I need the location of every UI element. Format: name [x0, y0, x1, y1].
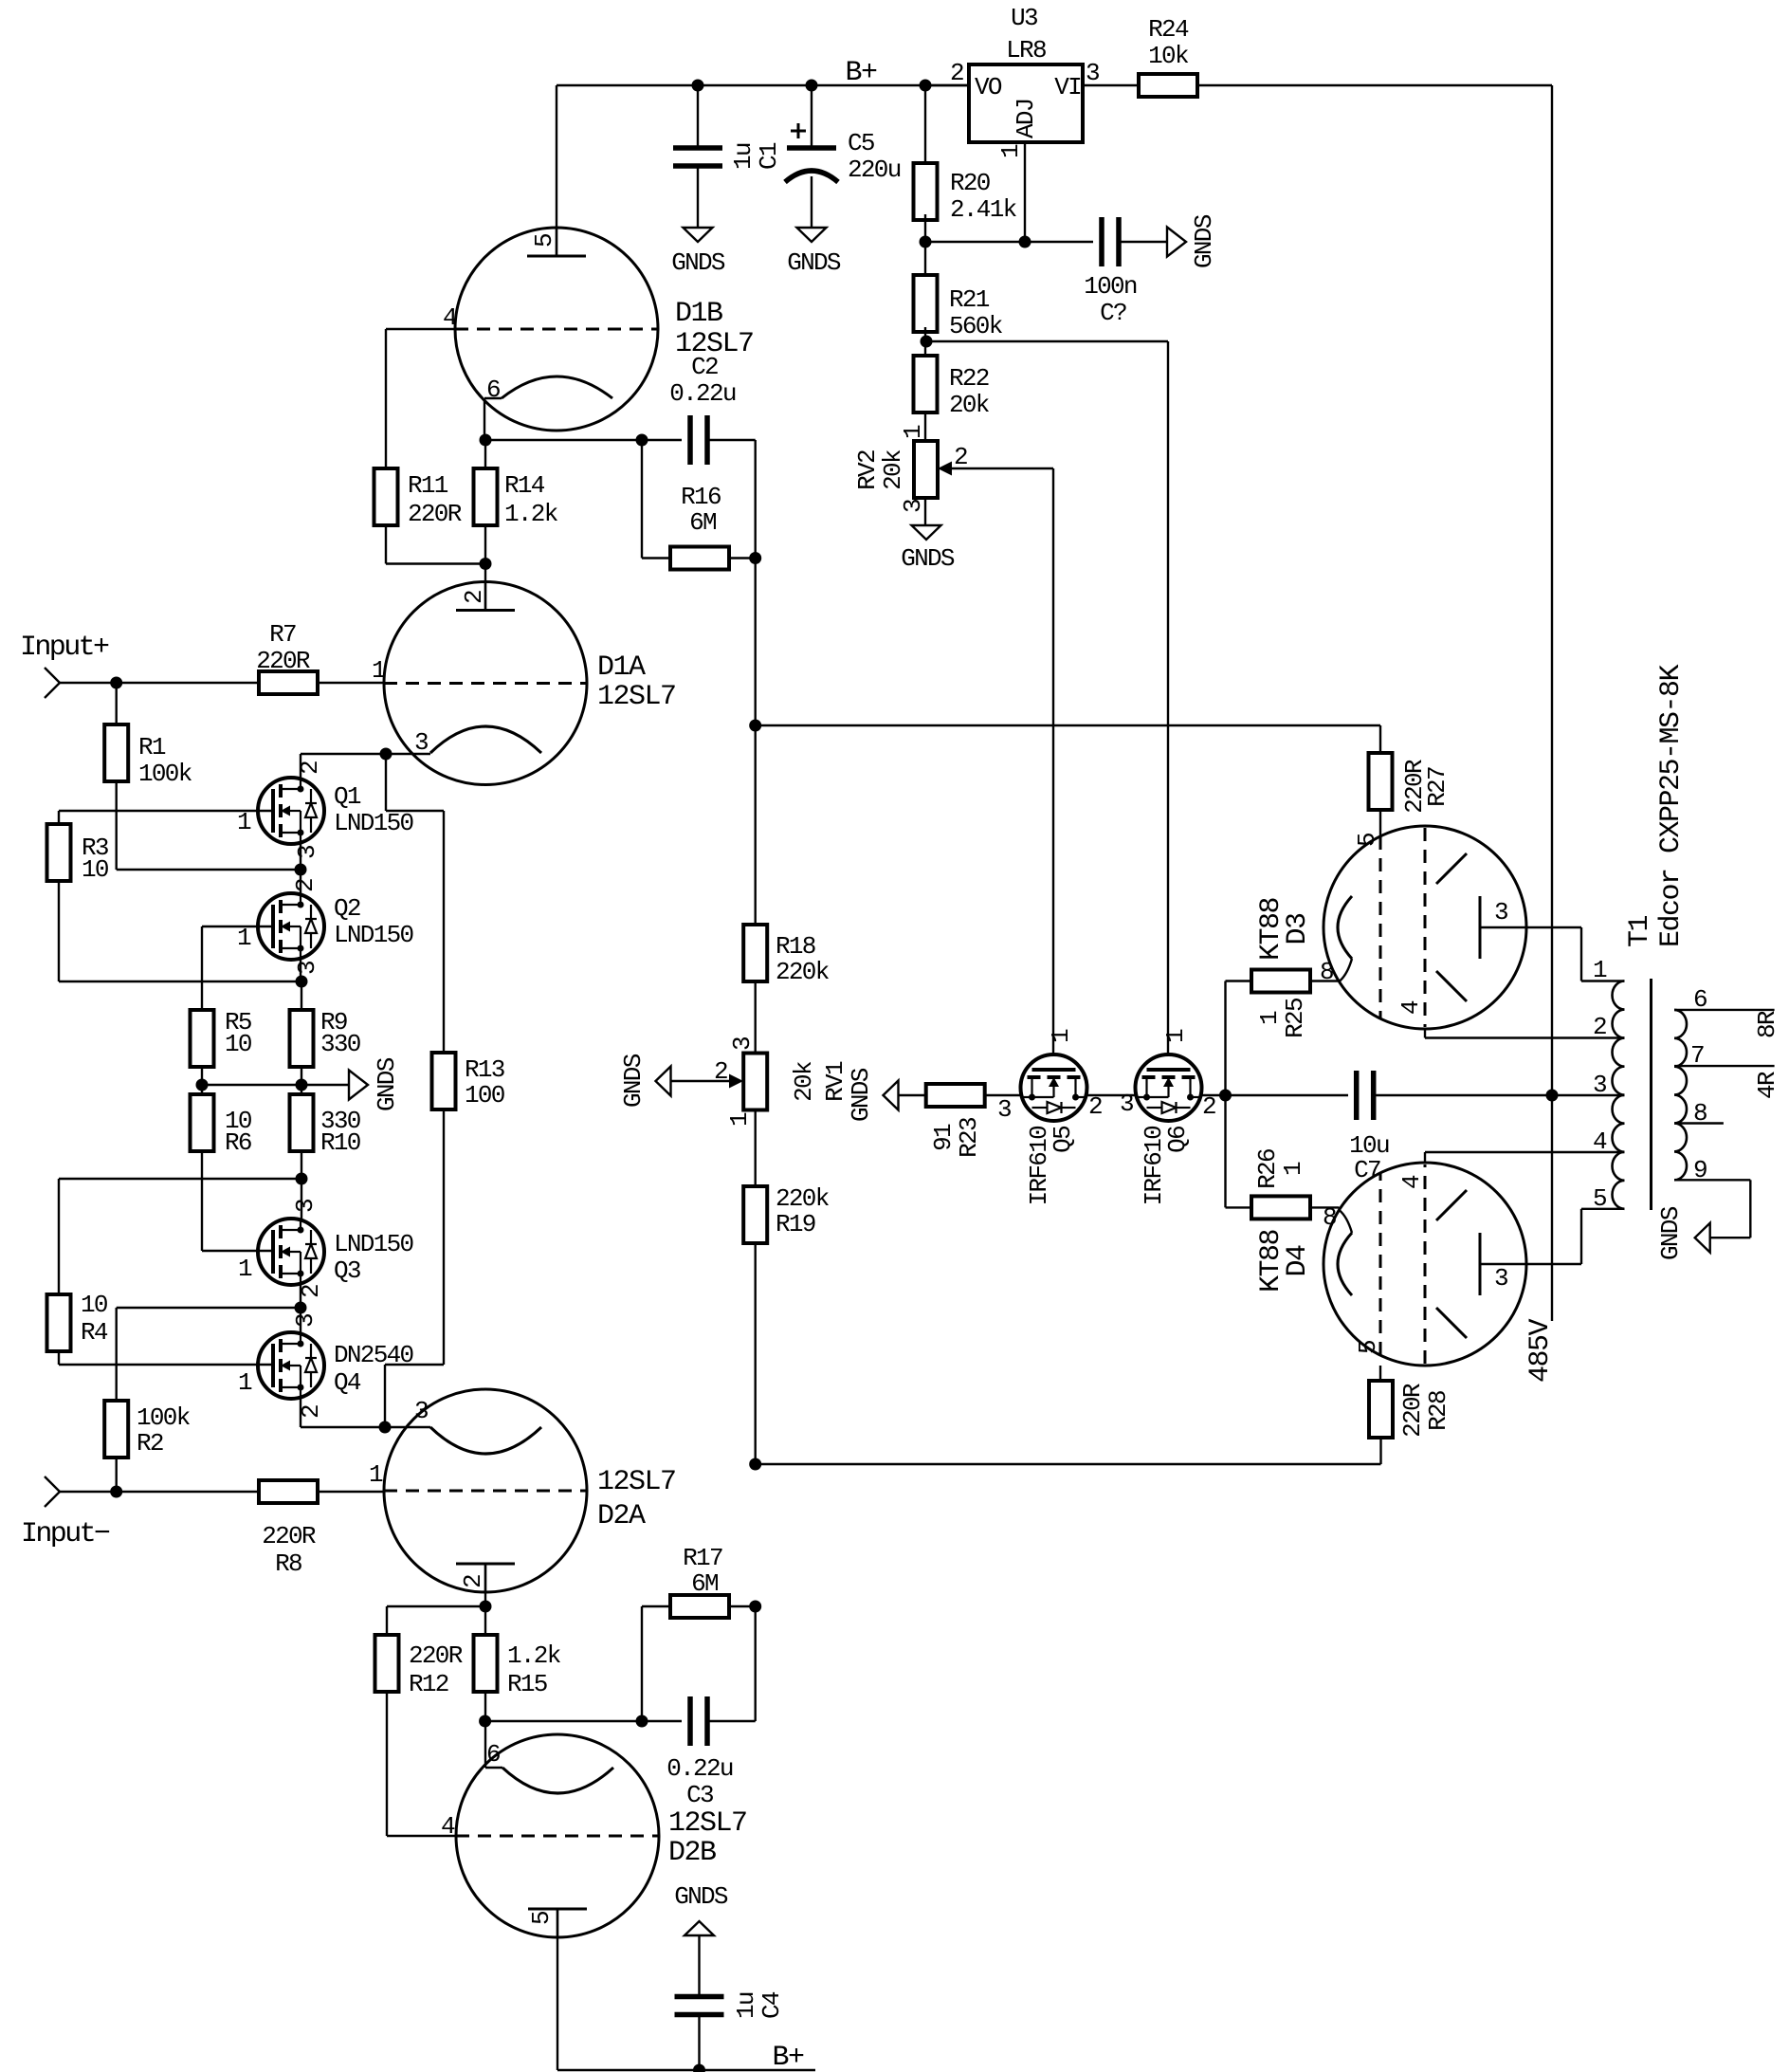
node R21/R22 junction: [921, 336, 933, 348]
wire Q2 source to R9: [301, 981, 302, 1010]
ground GNDS above C4: [685, 1921, 714, 1935]
wire D2B plate pin 5 to B+ rail: [557, 1908, 558, 2070]
node R9/R10 junction: [296, 1079, 308, 1091]
wire Q2 drain: [300, 870, 301, 893]
svg-text:D3: D3: [1282, 913, 1314, 945]
resistor R25: [1251, 970, 1310, 993]
wire D2B pin 6: [484, 1721, 486, 1768]
wire 485V rail: [1551, 85, 1553, 1321]
svg-text:Input+: Input+: [20, 632, 109, 664]
svg-text:LND150: LND150: [334, 1230, 413, 1258]
svg-text:Q3: Q3: [334, 1256, 360, 1285]
wire R13 bottom to D2A node: [443, 1109, 445, 1365]
wire R26 to D4 pin 8: [1310, 1206, 1340, 1208]
svg-text:4: 4: [1397, 1000, 1425, 1015]
capacitor C3: [687, 1696, 693, 1746]
wire to C? cap: [1025, 241, 1093, 243]
svg-text:D1B: D1B: [675, 298, 722, 330]
wire C7 right to center tap: [1374, 1094, 1625, 1096]
svg-text:Q6: Q6: [1163, 1127, 1192, 1153]
svg-text:R21: R21: [949, 285, 990, 314]
svg-text:3: 3: [414, 1397, 428, 1425]
svg-text:10: 10: [82, 855, 108, 884]
svg-text:1: 1: [1279, 1162, 1307, 1176]
resistor R6: [191, 1094, 214, 1151]
svg-text:Q1: Q1: [334, 782, 361, 811]
svg-text:1u: 1u: [729, 143, 758, 170]
svg-text:R4: R4: [81, 1318, 108, 1347]
wire Input+ row: [60, 682, 259, 684]
capacitor C2: [687, 415, 693, 465]
wire junction to C3: [485, 1720, 682, 1722]
svg-text:R26: R26: [1253, 1149, 1282, 1189]
svg-text:C5: C5: [848, 129, 874, 157]
ground GNDS under C5: [797, 228, 827, 242]
port Input+ chevron: [45, 668, 60, 698]
capacitor C? 100n: [1099, 217, 1104, 266]
svg-text:220R: 220R: [1398, 1384, 1427, 1438]
svg-text:GNDS: GNDS: [674, 1882, 728, 1911]
svg-text:Input−: Input−: [21, 1518, 110, 1550]
resistor R7: [259, 671, 318, 694]
svg-text:Q5: Q5: [1049, 1127, 1077, 1153]
wire ground row: [202, 1084, 349, 1086]
wire R14 pins: [484, 440, 486, 468]
svg-text:12SL7: 12SL7: [597, 681, 676, 713]
T1 pin 6 wire: [1674, 1009, 1775, 1011]
svg-text:100k: 100k: [137, 1403, 191, 1432]
potentiometer RV1 body: [743, 1054, 767, 1110]
svg-text:2: 2: [1593, 1013, 1606, 1041]
svg-text:R7: R7: [269, 620, 296, 649]
node center column junction: [749, 720, 761, 732]
T1 pin 9 wire: [1674, 1179, 1750, 1181]
wire R18 to RV1: [755, 981, 757, 1054]
svg-text:20k: 20k: [949, 391, 990, 419]
node ADJ junction: [1019, 236, 1031, 248]
svg-text:1.2k: 1.2k: [504, 500, 558, 528]
node Q4/D2A cathode junction: [379, 1421, 392, 1434]
node Input-/R2 junction: [110, 1486, 122, 1498]
wire D2A plate pin 2: [484, 1563, 486, 1606]
svg-text:C1: C1: [755, 142, 783, 170]
wire junction to R2: [117, 1307, 301, 1309]
wire RV1 to R19: [755, 1110, 757, 1186]
resistor R21: [924, 214, 926, 275]
node C3 left junction: [636, 1715, 648, 1728]
svg-text:8R: 8R: [1753, 1011, 1781, 1038]
svg-text:B+: B+: [845, 57, 877, 89]
node R15/D2B junction: [479, 1715, 491, 1728]
wire B+ top rail: [557, 84, 969, 86]
svg-text:9: 9: [1693, 1156, 1707, 1184]
wire R2 bottom: [115, 1458, 117, 1492]
wire D4 plate to T1 pin 5: [1526, 1263, 1581, 1265]
svg-text:2: 2: [1088, 1092, 1102, 1121]
svg-text:10k: 10k: [1148, 42, 1189, 70]
svg-text:GNDS: GNDS: [1190, 214, 1218, 268]
resistor R16: [670, 547, 729, 570]
wire to D2A cathode: [385, 1426, 430, 1428]
potentiometer RV2 body: [914, 441, 938, 498]
wire C? to ground: [1119, 241, 1167, 243]
wire Input- row: [60, 1491, 259, 1493]
svg-text:2.41k: 2.41k: [950, 195, 1017, 224]
svg-text:R23: R23: [955, 1118, 983, 1158]
wire cathode row to C2: [485, 439, 682, 441]
svg-text:12SL7: 12SL7: [668, 1807, 747, 1840]
capacitor C1: [673, 145, 722, 151]
svg-text:0.22u: 0.22u: [669, 379, 736, 408]
node C4/B+ junction: [693, 2064, 705, 2072]
svg-text:ADJ: ADJ: [1012, 99, 1040, 138]
wire R9 bottom: [301, 1067, 302, 1094]
svg-text:GNDS: GNDS: [671, 248, 725, 277]
svg-text:330: 330: [320, 1030, 360, 1058]
wire D1A cathode row: [386, 753, 430, 755]
svg-text:R16: R16: [681, 483, 721, 511]
svg-text:0.22u: 0.22u: [666, 1754, 733, 1783]
svg-text:3: 3: [291, 1314, 319, 1328]
svg-text:R15: R15: [507, 1670, 547, 1698]
resistor R15: [484, 1606, 486, 1635]
svg-text:8: 8: [1693, 1099, 1707, 1128]
wire RV2 to ground: [924, 498, 926, 525]
svg-text:Q4: Q4: [334, 1368, 361, 1397]
svg-text:2: 2: [291, 879, 319, 892]
resistor R12: [375, 1635, 399, 1692]
wire C4 bottom: [698, 2015, 700, 2070]
node Q6/R25/R26/C7 junction: [1219, 1090, 1232, 1102]
wire Q2 gate: [202, 926, 273, 927]
resistor R17: [670, 1595, 729, 1618]
svg-text:1: 1: [372, 656, 386, 685]
D1B pin 4 wire: [386, 328, 455, 330]
svg-text:2: 2: [460, 591, 488, 604]
wire C5 top: [811, 85, 812, 148]
wire Q4 source: [300, 1399, 301, 1427]
svg-text:20k: 20k: [790, 1061, 818, 1102]
wire D4 screen to T1 pin 4: [1424, 1152, 1426, 1163]
svg-text:GNDS: GNDS: [373, 1057, 401, 1111]
T1 pin 8 wire: [1674, 1122, 1724, 1124]
ground GNDS under RV2: [912, 525, 941, 540]
transformer T1 core: [1650, 979, 1652, 1210]
svg-text:10: 10: [225, 1030, 251, 1058]
svg-text:6: 6: [486, 376, 500, 404]
U3 pin 2 wire: [925, 84, 969, 86]
svg-text:2: 2: [950, 59, 963, 87]
capacitor C5 (polarized): [787, 145, 836, 151]
wire B+ to D1B plate: [556, 85, 557, 256]
transformer T1 primary winding: [1612, 981, 1624, 1209]
svg-text:4: 4: [441, 1812, 455, 1841]
resistor R4: [47, 1294, 71, 1351]
transistor Q2 LND150: [258, 893, 324, 960]
wire C4 top to ground: [698, 1935, 700, 1996]
svg-text:2: 2: [1202, 1092, 1215, 1121]
resistor R1: [115, 683, 117, 724]
svg-text:220R: 220R: [408, 500, 462, 528]
capacitor C4: [675, 1994, 724, 2000]
node Input+/R1 junction: [110, 677, 122, 689]
node bottom rail junction: [749, 1458, 761, 1471]
D1B pin 6 wire: [484, 398, 485, 440]
resistor R9: [290, 1010, 314, 1067]
svg-text:2: 2: [459, 1575, 487, 1588]
svg-text:R24: R24: [1148, 15, 1189, 44]
resistor R3: [47, 824, 71, 881]
label C5 plus sign: [791, 130, 806, 133]
wire R4 bottom to Q4 gate: [58, 1351, 60, 1365]
wire grid bus to D3 (R27): [756, 724, 1380, 726]
wire C3 right: [707, 1720, 756, 1722]
svg-text:5: 5: [1593, 1184, 1606, 1213]
wire junction to R4: [59, 1178, 301, 1180]
svg-text:1: 1: [237, 924, 251, 952]
svg-text:20k: 20k: [879, 449, 907, 490]
svg-text:D2B: D2B: [668, 1837, 716, 1869]
svg-text:3: 3: [1593, 1071, 1606, 1099]
svg-text:R11: R11: [408, 471, 448, 500]
svg-text:7: 7: [1690, 1041, 1704, 1070]
svg-text:4: 4: [443, 303, 457, 332]
svg-text:C3: C3: [686, 1781, 713, 1809]
resistor R19: [743, 1186, 767, 1243]
svg-text:3: 3: [899, 500, 927, 513]
transformer T1 secondary winding: [1674, 1010, 1687, 1180]
svg-text:1: 1: [1255, 1011, 1284, 1025]
transistor Q4 DN2540: [258, 1332, 324, 1399]
resistor R11: [374, 468, 398, 525]
svg-text:1: 1: [238, 1255, 252, 1283]
svg-text:T1: T1: [1624, 915, 1656, 947]
svg-text:3: 3: [728, 1037, 757, 1051]
svg-text:RV1: RV1: [821, 1061, 849, 1102]
svg-text:C2: C2: [691, 353, 718, 381]
svg-text:1: 1: [1593, 956, 1607, 984]
wire R16 right: [729, 557, 756, 559]
svg-text:1: 1: [237, 808, 251, 836]
resistor R26: [1251, 1196, 1310, 1219]
svg-text:D2A: D2A: [597, 1500, 646, 1532]
resistor R14: [474, 468, 498, 525]
wire Q1 source: [300, 844, 301, 870]
resistor R10: [290, 1094, 314, 1151]
svg-text:3: 3: [291, 1200, 319, 1213]
svg-text:12SL7: 12SL7: [597, 1466, 676, 1498]
svg-text:3: 3: [1120, 1090, 1133, 1118]
node D1B cathode junction: [480, 434, 492, 447]
resistor R24: [1139, 74, 1197, 97]
node D1A cathode junction: [380, 748, 392, 761]
wire R28 to D4 grid: [1379, 1366, 1381, 1381]
svg-text:Q2: Q2: [334, 894, 360, 923]
svg-text:100n: 100n: [1084, 272, 1137, 301]
ground GNDS right of C?: [1167, 228, 1186, 257]
svg-text:8: 8: [1320, 958, 1333, 986]
svg-text:3: 3: [1494, 898, 1507, 926]
svg-text:3: 3: [997, 1095, 1011, 1124]
svg-text:1u: 1u: [732, 1992, 760, 2019]
svg-text:VI: VI: [1054, 73, 1081, 101]
regulator U3 LR8 box: [969, 64, 1083, 142]
wire plate junction to R12: [387, 1605, 485, 1607]
svg-text:R25: R25: [1281, 999, 1309, 1038]
svg-text:3: 3: [1494, 1264, 1507, 1293]
wire R19 bottom to rail: [755, 1243, 757, 1464]
wire center column to R18: [755, 725, 757, 925]
svg-text:R8: R8: [275, 1549, 301, 1578]
transistor Q5 IRF610: [1021, 1054, 1087, 1121]
transistor Q1 LND150: [258, 778, 324, 844]
svg-text:B+: B+: [772, 2042, 804, 2072]
wire C5 bottom: [811, 176, 812, 228]
svg-text:5: 5: [1353, 834, 1381, 847]
svg-text:DN2540: DN2540: [334, 1341, 413, 1369]
wire junction to Q6 gate: [926, 340, 1168, 342]
resistor R13: [432, 1053, 456, 1109]
svg-text:GNDS: GNDS: [1656, 1206, 1685, 1260]
svg-text:10: 10: [81, 1291, 107, 1319]
wire Q6 to C7 node: [1202, 1094, 1349, 1096]
svg-text:R18: R18: [776, 932, 815, 961]
node C1 top junction: [692, 80, 704, 92]
port Input- chevron: [45, 1476, 60, 1507]
ground GNDS under C1: [684, 228, 713, 242]
resistor R23: [926, 1084, 985, 1107]
node Q2 source junction: [296, 976, 308, 988]
ground GNDS left of R23: [884, 1081, 899, 1110]
svg-text:1: 1: [1161, 1029, 1190, 1043]
svg-text:R28: R28: [1424, 1391, 1452, 1431]
svg-text:91: 91: [929, 1124, 958, 1151]
node R16/C2 right junction: [749, 552, 761, 564]
svg-text:R13: R13: [465, 1055, 504, 1084]
RV2 wiper arrow: [938, 462, 952, 476]
svg-text:1: 1: [899, 425, 927, 439]
svg-text:RV2: RV2: [853, 450, 882, 490]
tube D2A 12SL7 (triode, flipped): [384, 1389, 587, 1592]
U3 pin 1 wire (ADJ): [1024, 142, 1026, 242]
svg-text:5: 5: [1354, 1341, 1382, 1354]
wire Q2 source: [300, 960, 301, 981]
wire R10 bottom: [301, 1151, 302, 1219]
capacitor C7: [1354, 1071, 1360, 1120]
svg-text:2: 2: [714, 1057, 727, 1086]
wire R6 bottom to Q3 gate: [201, 1151, 203, 1251]
svg-text:VO: VO: [975, 73, 1002, 101]
tube D4 KT88: [1323, 1163, 1526, 1366]
svg-text:6M: 6M: [689, 508, 716, 537]
svg-text:R12: R12: [409, 1670, 448, 1698]
svg-text:1: 1: [369, 1460, 383, 1489]
wire R11 bottom: [385, 525, 387, 564]
wire C1 top: [697, 85, 699, 148]
svg-text:LND150: LND150: [334, 809, 413, 837]
svg-text:220R: 220R: [262, 1522, 316, 1550]
svg-text:4: 4: [1397, 1175, 1426, 1189]
resistor R2: [104, 1401, 128, 1458]
node R5/R6 junction: [196, 1079, 209, 1091]
svg-text:100k: 100k: [138, 760, 192, 788]
svg-text:GNDS: GNDS: [619, 1054, 648, 1108]
wire R16 left leg: [641, 440, 643, 559]
node ADJ junction left: [920, 236, 932, 248]
wire bottom rail to R28: [756, 1463, 1381, 1465]
svg-text:R2: R2: [137, 1429, 163, 1458]
wire center column down: [755, 559, 757, 726]
svg-text:220R: 220R: [256, 647, 310, 675]
wire R15 bottom: [484, 1692, 486, 1721]
svg-text:D4: D4: [1282, 1245, 1314, 1277]
wire R5 bottom: [201, 1067, 203, 1094]
svg-text:2: 2: [954, 443, 967, 471]
svg-text:6: 6: [1693, 985, 1707, 1014]
svg-text:R17: R17: [683, 1544, 722, 1572]
wire cathode to Q1 drain: [301, 753, 386, 755]
wire RV2 wiper to Q5 gate: [1052, 468, 1054, 1054]
wire C2 right: [707, 439, 756, 441]
wire R17 left leg: [641, 1606, 643, 1721]
node C7/485V/T1 junction: [1546, 1090, 1559, 1102]
svg-text:C?: C?: [1100, 299, 1126, 327]
wire C1 bottom: [697, 166, 699, 228]
wire Q4 drain: [300, 1308, 301, 1332]
svg-text:220R: 220R: [409, 1641, 463, 1670]
resistor R28: [1369, 1381, 1393, 1438]
tube D1A 12SL7 (triode): [384, 582, 587, 785]
svg-text:5: 5: [527, 1912, 556, 1925]
svg-text:8: 8: [1323, 1203, 1336, 1232]
resistor R27: [1369, 753, 1393, 810]
node B+/U3/R20 junction: [920, 80, 932, 92]
svg-text:3: 3: [293, 846, 321, 859]
transistor Q3 LND150: [258, 1219, 324, 1285]
node Q3/Q4 junction: [295, 1302, 307, 1314]
svg-text:1: 1: [996, 144, 1025, 158]
svg-text:C4: C4: [758, 1991, 786, 2019]
svg-text:R1: R1: [138, 733, 166, 761]
ground GNDS right arrow: [349, 1071, 368, 1100]
wire D1A pin 2: [484, 564, 486, 611]
wire D3 screen to T1 pin 2: [1424, 1029, 1426, 1038]
node R17/C3 right junction: [749, 1601, 761, 1613]
svg-text:4: 4: [1593, 1128, 1607, 1156]
svg-text:LR8: LR8: [1006, 36, 1046, 64]
tube D3 KT88: [1323, 826, 1526, 1029]
node D2A plate junction: [480, 1601, 492, 1613]
resistor R22: [924, 327, 926, 356]
svg-text:3: 3: [293, 962, 321, 975]
resistor R20: [924, 85, 926, 163]
transistor Q6 IRF610: [1136, 1054, 1202, 1121]
wire junction down to R26: [1224, 1095, 1226, 1207]
svg-text:Edcor CXPP25-MS-8K: Edcor CXPP25-MS-8K: [1655, 664, 1688, 947]
svg-text:1: 1: [1047, 1029, 1075, 1043]
tube D1B 12SL7 (triode): [455, 228, 658, 431]
svg-text:R6: R6: [225, 1128, 251, 1157]
ground GNDS at T1 secondary: [1695, 1223, 1710, 1253]
svg-text:GNDS: GNDS: [901, 544, 955, 573]
svg-text:1.2k: 1.2k: [507, 1641, 561, 1670]
wire R3 bottom to Q2 source row: [58, 881, 60, 981]
svg-text:GNDS: GNDS: [847, 1068, 875, 1122]
svg-text:560k: 560k: [949, 312, 1003, 340]
svg-text:5: 5: [530, 234, 558, 248]
resistor R18: [743, 925, 767, 981]
svg-text:6: 6: [486, 1740, 500, 1769]
